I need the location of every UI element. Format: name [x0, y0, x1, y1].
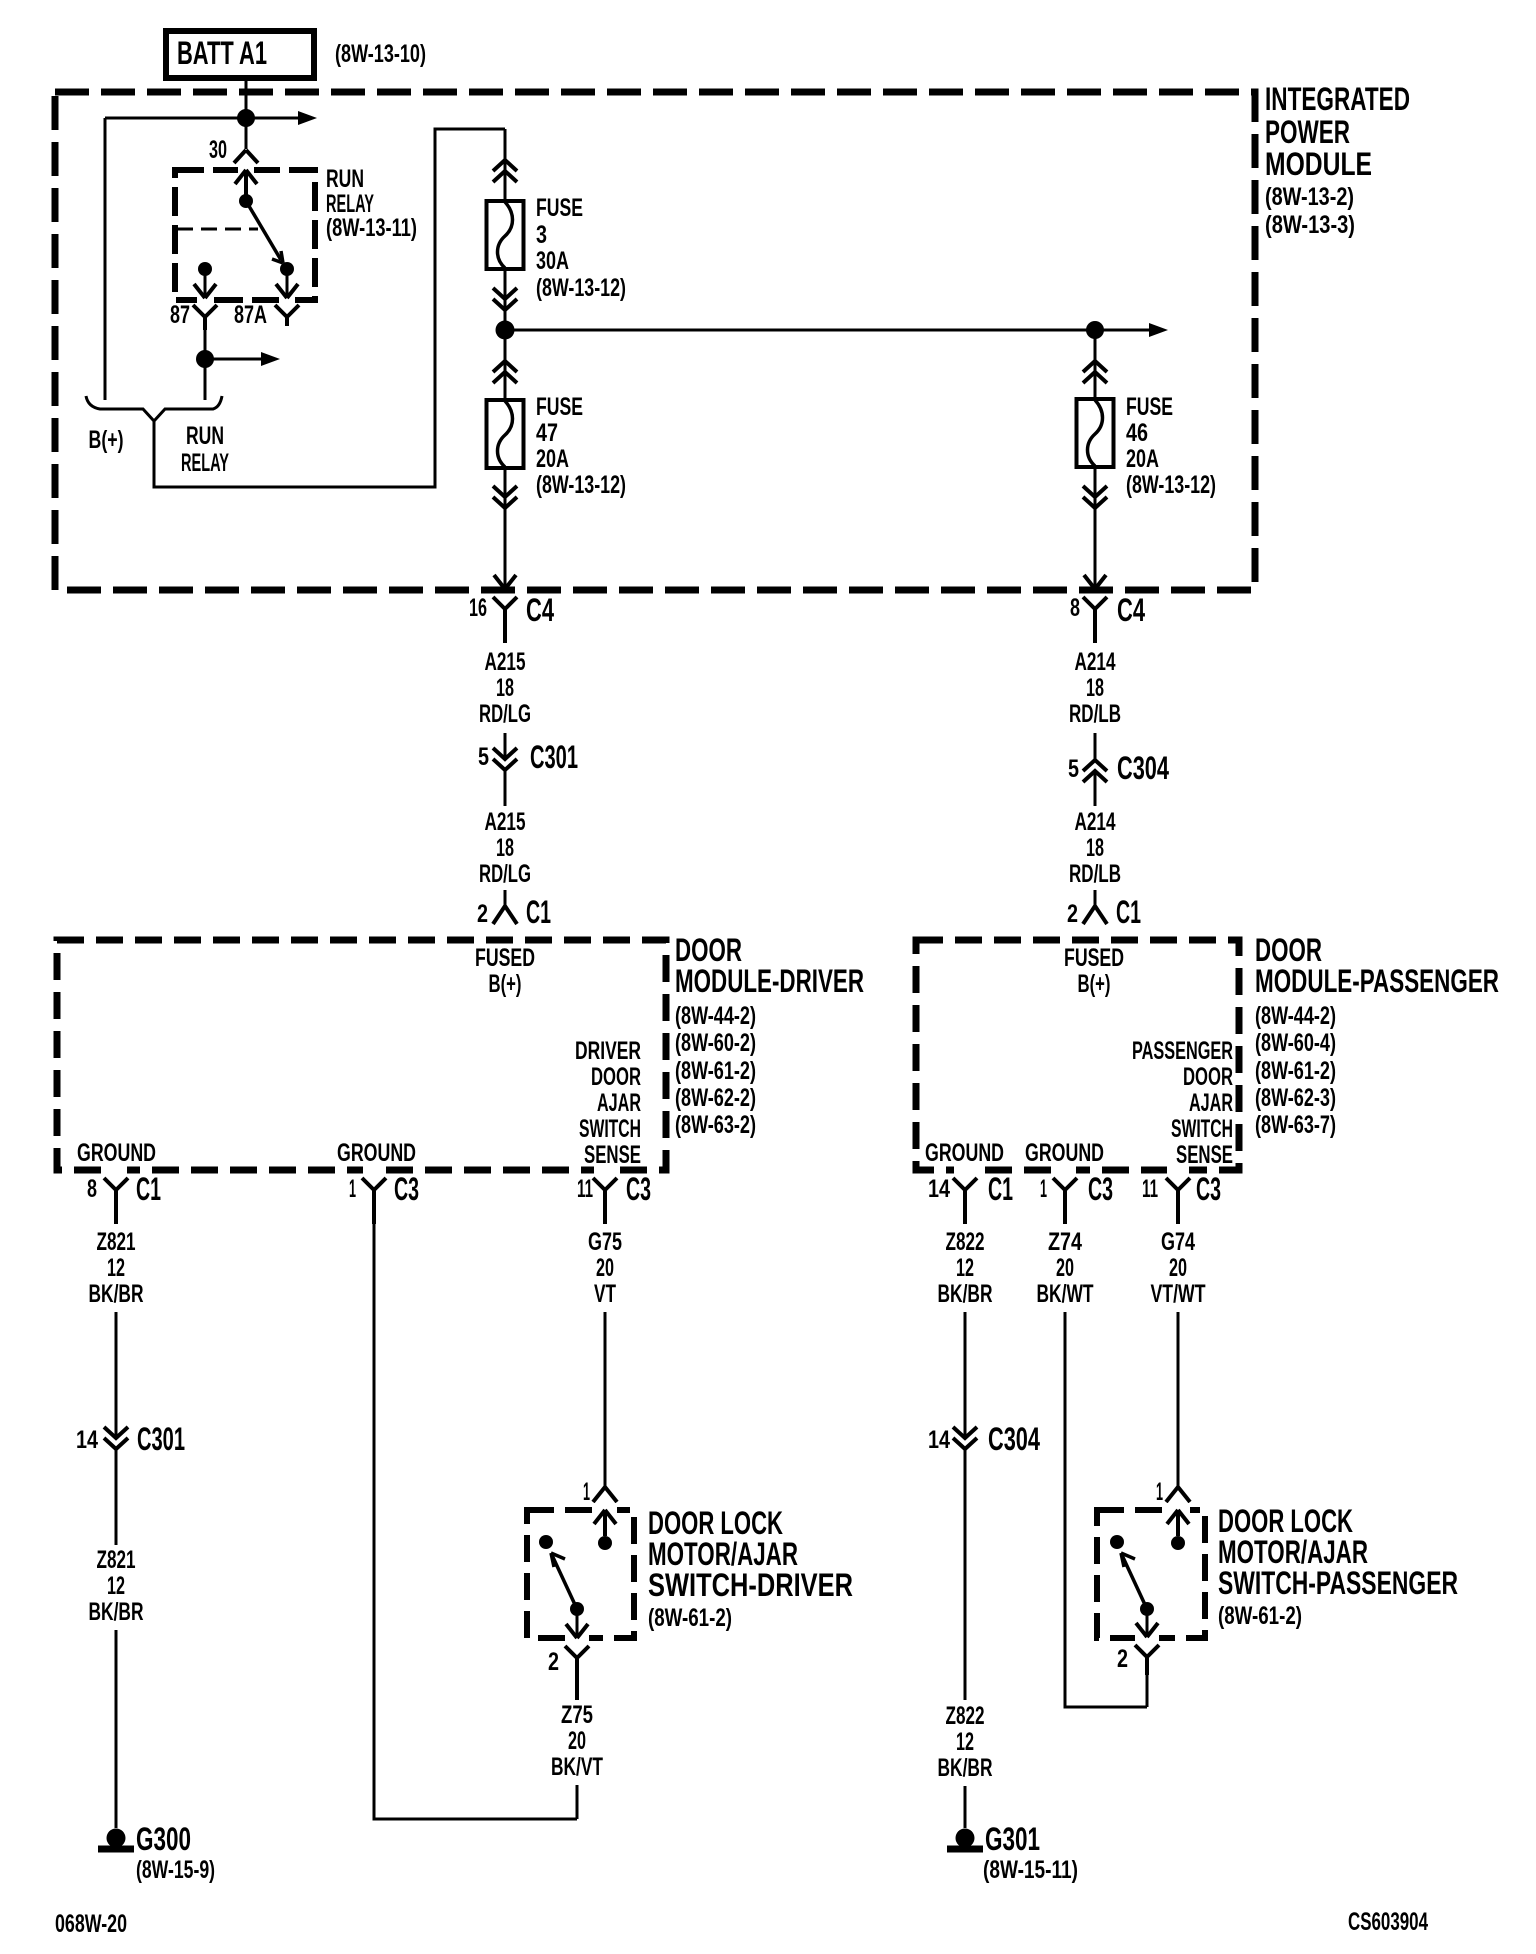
- switch passenger common dot: [1140, 1602, 1154, 1616]
- svg-text:A215: A215: [485, 808, 526, 836]
- svg-text:Z822: Z822: [946, 1702, 985, 1730]
- svg-text:G75: G75: [588, 1228, 622, 1256]
- switch pin 2 female chevron driver: [565, 1646, 589, 1700]
- wire fuse 3 output: [504, 271, 507, 330]
- svg-text:2: 2: [477, 900, 488, 928]
- svg-text:20A: 20A: [1126, 445, 1159, 473]
- fuse F47: [487, 400, 524, 468]
- svg-text:14: 14: [928, 1175, 950, 1203]
- connector chevrons fuse 3 output: [493, 288, 517, 310]
- wire 87 down to brace: [204, 330, 207, 400]
- svg-text:C1: C1: [136, 1171, 161, 1207]
- svg-text:C301: C301: [137, 1421, 185, 1457]
- svg-text:(8W-60-4): (8W-60-4): [1255, 1029, 1336, 1057]
- fuse F46: [1077, 399, 1114, 467]
- battery feed box BATT A1: [166, 31, 314, 78]
- relay coil-side dot: [239, 194, 253, 208]
- arrow 87 branch: [261, 352, 280, 366]
- arrow into C4 pin 8: [1084, 575, 1106, 589]
- svg-text:RUN: RUN: [186, 422, 224, 450]
- wire G74 down: [1177, 1312, 1180, 1487]
- svg-text:2: 2: [548, 1648, 559, 1676]
- wire 87 branch arrow line: [205, 358, 263, 361]
- svg-text:(8W-61-2): (8W-61-2): [1255, 1057, 1336, 1085]
- switch passenger contact dot: [1110, 1535, 1124, 1549]
- junction 87 branch: [196, 350, 214, 368]
- door module driver border: [57, 940, 666, 1170]
- svg-text:BK/BR: BK/BR: [89, 1280, 144, 1308]
- svg-text:C4: C4: [1117, 592, 1145, 628]
- white gap relay pin 30: [238, 164, 254, 176]
- wire Z75 lower: [576, 1785, 579, 1819]
- pin 87A female chevron: [275, 305, 299, 326]
- svg-text:87A: 87A: [234, 301, 267, 329]
- svg-text:20: 20: [1056, 1254, 1074, 1282]
- wire into C301: [504, 733, 507, 759]
- relay contact dot 87A: [280, 262, 294, 276]
- connector C3 pin 11 female driver: [593, 1178, 617, 1224]
- svg-text:FUSE: FUSE: [536, 393, 583, 421]
- ground G300: [107, 1829, 126, 1848]
- svg-text:C301: C301: [530, 739, 578, 775]
- svg-text:BK/BR: BK/BR: [938, 1754, 993, 1782]
- svg-text:3: 3: [536, 221, 547, 249]
- svg-text:CS603904: CS603904: [1348, 1908, 1428, 1936]
- svg-text:2: 2: [1067, 900, 1078, 928]
- svg-text:C304: C304: [988, 1421, 1040, 1457]
- switch passenger pin 1 male arrow: [1167, 1510, 1189, 1536]
- svg-text:G74: G74: [1161, 1228, 1195, 1256]
- pin 30 female chevron: [234, 150, 258, 163]
- svg-text:C1: C1: [526, 894, 551, 930]
- svg-text:(8W-61-2): (8W-61-2): [648, 1604, 732, 1632]
- wire Z822 lower: [964, 1786, 967, 1828]
- svg-text:AJAR: AJAR: [597, 1089, 641, 1117]
- connector C1 pin 2 male passenger: [1083, 906, 1107, 924]
- svg-text:BK/BR: BK/BR: [89, 1598, 144, 1626]
- svg-text:8: 8: [87, 1175, 97, 1203]
- svg-text:SWITCH: SWITCH: [579, 1115, 641, 1143]
- white gap passenger pin C1-14: [954, 1163, 976, 1177]
- svg-text:C304: C304: [1117, 750, 1169, 786]
- svg-text:1: 1: [1040, 1175, 1047, 1203]
- svg-text:1: 1: [1156, 1478, 1163, 1506]
- switch driver common dot: [570, 1602, 584, 1616]
- connector C1 pin 2 male driver: [493, 906, 517, 924]
- wire into C304: [1094, 733, 1097, 760]
- svg-text:C1: C1: [988, 1171, 1013, 1207]
- wire Z822 upper: [964, 1312, 967, 1438]
- svg-text:Z821: Z821: [97, 1546, 136, 1574]
- svg-text:18: 18: [1086, 834, 1104, 862]
- relay pin 30 male arrow: [235, 170, 257, 196]
- wire Z821 mid: [115, 1449, 118, 1545]
- svg-text:12: 12: [956, 1254, 974, 1282]
- switch passenger arm: [1121, 1553, 1147, 1609]
- svg-text:18: 18: [1086, 674, 1104, 702]
- svg-text:30A: 30A: [536, 247, 569, 275]
- wire below C304: [1094, 771, 1097, 806]
- svg-text:DRIVER: DRIVER: [575, 1037, 641, 1065]
- switch passenger pin 2 exit arrow: [1136, 1623, 1158, 1637]
- junction battery splice: [237, 109, 255, 127]
- svg-text:MODULE-PASSENGER: MODULE-PASSENGER: [1255, 963, 1499, 999]
- svg-text:14: 14: [928, 1426, 950, 1454]
- svg-text:POWER: POWER: [1265, 114, 1350, 150]
- wire fuse 46 output: [1094, 469, 1097, 588]
- svg-text:(8W-13-2): (8W-13-2): [1265, 183, 1354, 211]
- relay pin 87 exit wire: [204, 269, 207, 296]
- svg-text:(8W-62-3): (8W-62-3): [1255, 1084, 1336, 1112]
- svg-text:A214: A214: [1075, 648, 1116, 676]
- white gap relay 87r: [197, 294, 213, 306]
- white gap relay pin 87: [197, 294, 213, 306]
- svg-text:RD/LG: RD/LG: [479, 700, 531, 728]
- connector C301 chevrons: [493, 748, 517, 770]
- svg-text:BATT A1: BATT A1: [177, 35, 267, 71]
- connector chevrons fuse 46 output: [1083, 486, 1107, 508]
- svg-text:(8W-13-11): (8W-13-11): [326, 214, 417, 242]
- svg-text:2: 2: [1117, 1645, 1128, 1673]
- svg-text:FUSED: FUSED: [475, 944, 535, 972]
- svg-text:Z821: Z821: [97, 1228, 136, 1256]
- svg-text:11: 11: [577, 1175, 593, 1203]
- switch driver pin 1 male arrow: [594, 1510, 616, 1536]
- wire Z821 lower: [115, 1630, 118, 1828]
- svg-text:RD/LG: RD/LG: [479, 860, 531, 888]
- svg-text:(8W-60-2): (8W-60-2): [675, 1029, 756, 1057]
- svg-text:SENSE: SENSE: [584, 1141, 641, 1169]
- connector chevrons fuse 3 input: [493, 160, 517, 182]
- connector chevrons fuse 46 input: [1083, 361, 1107, 383]
- connector C3 pin 1 female passenger: [1053, 1178, 1077, 1224]
- door lock switch passenger border: [1097, 1510, 1205, 1638]
- svg-text:068W-20: 068W-20: [55, 1910, 127, 1938]
- white gap driver switch pin 1: [593, 1503, 617, 1517]
- white gap passenger switch pin 2: [1135, 1630, 1159, 1644]
- white gap passenger pin C3-11: [1167, 1163, 1189, 1177]
- wire B+ horizontal branch: [105, 117, 299, 120]
- svg-text:FUSE: FUSE: [1126, 393, 1173, 421]
- wire fuse 47 input: [504, 330, 507, 398]
- switch driver arm arrowhead: [551, 1553, 565, 1567]
- svg-text:RUN: RUN: [326, 165, 364, 193]
- switch driver pin 1 dot: [598, 1536, 612, 1550]
- svg-text:DOOR: DOOR: [591, 1063, 641, 1091]
- svg-text:GROUND: GROUND: [1025, 1139, 1104, 1167]
- relay pin 87 exit arrow: [194, 284, 216, 298]
- svg-text:VT: VT: [594, 1280, 616, 1308]
- svg-text:(8W-62-2): (8W-62-2): [675, 1084, 756, 1112]
- svg-text:(8W-61-2): (8W-61-2): [675, 1057, 756, 1085]
- switch passenger pin 1 dot: [1171, 1536, 1185, 1550]
- svg-text:(8W-13-10): (8W-13-10): [335, 40, 426, 68]
- svg-text:87: 87: [170, 301, 190, 329]
- switch passenger arm arrowhead: [1121, 1553, 1135, 1567]
- wire Z822 mid: [964, 1449, 967, 1700]
- relay pin 87A exit arrow: [276, 284, 298, 298]
- switch driver pin 2 exit arrow: [566, 1624, 588, 1638]
- svg-text:12: 12: [107, 1254, 125, 1282]
- connector C4 pin 8 female: [1083, 597, 1107, 643]
- svg-text:PASSENGER: PASSENGER: [1132, 1037, 1233, 1065]
- door module passenger border: [916, 940, 1239, 1170]
- svg-text:20: 20: [1169, 1254, 1187, 1282]
- svg-text:(8W-13-12): (8W-13-12): [536, 471, 626, 499]
- svg-text:(8W-63-7): (8W-63-7): [1255, 1111, 1336, 1139]
- switch pin 1 female chevron driver: [593, 1487, 617, 1502]
- relay contact dot 87: [198, 262, 212, 276]
- svg-text:Z75: Z75: [561, 1701, 593, 1729]
- svg-text:1: 1: [583, 1478, 590, 1506]
- fuse F3: [487, 201, 524, 269]
- svg-text:INTEGRATED: INTEGRATED: [1265, 81, 1410, 117]
- svg-text:RD/LB: RD/LB: [1069, 860, 1121, 888]
- run relay box: [175, 170, 315, 300]
- wire Z821 upper: [115, 1312, 118, 1438]
- svg-text:SENSE: SENSE: [1176, 1141, 1233, 1169]
- svg-text:(8W-44-2): (8W-44-2): [675, 1002, 756, 1030]
- wire into driver C1 pin 2: [504, 890, 507, 906]
- svg-text:DOOR: DOOR: [1183, 1063, 1233, 1091]
- brace bus merge: [86, 396, 222, 421]
- ground G301: [956, 1829, 975, 1848]
- svg-text:FUSE: FUSE: [536, 194, 583, 222]
- svg-text:30: 30: [209, 136, 227, 164]
- svg-text:(8W-44-2): (8W-44-2): [1255, 1002, 1336, 1030]
- svg-text:5: 5: [478, 743, 489, 771]
- svg-text:C3: C3: [394, 1171, 419, 1207]
- svg-text:C1: C1: [1116, 894, 1141, 930]
- relay divider dashed: [177, 228, 258, 231]
- relay switch arm: [246, 201, 281, 260]
- switch driver pin 2 exit wire: [576, 1609, 579, 1636]
- switch driver arm: [551, 1553, 577, 1609]
- arrow B+ branch: [298, 111, 317, 125]
- svg-text:FUSED: FUSED: [1064, 944, 1124, 972]
- svg-text:18: 18: [496, 834, 514, 862]
- svg-text:SWITCH-PASSENGER: SWITCH-PASSENGER: [1218, 1565, 1458, 1601]
- wire B+ left drop: [104, 118, 107, 400]
- connector chevrons fuse 47 output: [493, 486, 517, 508]
- svg-text:BK/WT: BK/WT: [1037, 1280, 1094, 1308]
- wire fused feed bus: [505, 329, 1151, 332]
- relay arm arrowhead: [272, 251, 283, 263]
- svg-text:VT/WT: VT/WT: [1151, 1280, 1206, 1308]
- svg-text:B(+): B(+): [1078, 970, 1111, 998]
- svg-text:A215: A215: [485, 648, 526, 676]
- svg-text:Z822: Z822: [946, 1228, 985, 1256]
- wire G75 down: [604, 1312, 607, 1487]
- connector C3 pin 11 female passenger: [1166, 1178, 1190, 1224]
- white gap relay 30r: [238, 164, 254, 176]
- svg-text:20: 20: [568, 1727, 586, 1755]
- svg-text:Z74: Z74: [1048, 1228, 1082, 1256]
- svg-text:MODULE: MODULE: [1265, 146, 1372, 182]
- svg-text:12: 12: [956, 1728, 974, 1756]
- svg-text:RELAY: RELAY: [181, 449, 229, 477]
- svg-text:(8W-13-3): (8W-13-3): [1265, 211, 1355, 239]
- connector C1 pin 8 female: [104, 1178, 128, 1224]
- wire below C301: [504, 770, 507, 806]
- wire battery feed down: [245, 81, 248, 149]
- svg-text:A214: A214: [1075, 808, 1116, 836]
- svg-text:(8W-15-9): (8W-15-9): [136, 1856, 215, 1884]
- arrow into C4 pin 16: [494, 575, 516, 589]
- white gap relay 87Ar: [279, 294, 295, 306]
- switch driver contact dot: [539, 1535, 553, 1549]
- svg-text:46: 46: [1126, 419, 1148, 447]
- svg-text:B(+): B(+): [89, 426, 124, 454]
- connector C4 pin 16 female: [493, 597, 517, 643]
- connector C3 pin 1 female driver: [362, 1178, 386, 1224]
- svg-text:B(+): B(+): [489, 970, 522, 998]
- svg-text:1: 1: [349, 1175, 356, 1203]
- white gap driver pin C3-11: [594, 1163, 616, 1177]
- connector C304 chevrons: [1083, 760, 1107, 782]
- svg-text:AJAR: AJAR: [1189, 1089, 1233, 1117]
- svg-text:20A: 20A: [536, 445, 569, 473]
- svg-text:(8W-13-12): (8W-13-12): [536, 274, 626, 302]
- junction fused feed splice: [496, 321, 515, 340]
- svg-text:5: 5: [1068, 755, 1079, 783]
- junction fuse 46 tap: [1086, 321, 1104, 339]
- relay pin 87A exit wire: [286, 269, 289, 296]
- svg-text:12: 12: [107, 1572, 125, 1600]
- connector chevrons fuse 47 input: [493, 361, 517, 383]
- svg-text:(8W-63-2): (8W-63-2): [675, 1111, 756, 1139]
- svg-text:16: 16: [469, 594, 487, 622]
- white gap driver pin C1-8: [105, 1163, 127, 1177]
- wire into passenger C1 pin 2: [1094, 890, 1097, 906]
- svg-text:47: 47: [536, 419, 558, 447]
- white gap driver switch pin 2: [565, 1631, 589, 1645]
- svg-text:18: 18: [496, 674, 514, 702]
- wire fuse 46 input: [1094, 330, 1097, 397]
- svg-text:GROUND: GROUND: [925, 1139, 1004, 1167]
- connector C301 lower chevrons: [104, 1427, 128, 1449]
- svg-text:C3: C3: [1196, 1171, 1221, 1207]
- wire fuse 3 input: [504, 129, 507, 199]
- svg-text:SWITCH-DRIVER: SWITCH-DRIVER: [648, 1567, 853, 1603]
- svg-text:BK/BR: BK/BR: [938, 1280, 993, 1308]
- white gap driver pin C3-1: [363, 1163, 385, 1177]
- switch passenger pin 2 exit wire: [1146, 1609, 1149, 1635]
- svg-text:RD/LB: RD/LB: [1069, 700, 1121, 728]
- svg-text:GROUND: GROUND: [77, 1139, 156, 1167]
- svg-text:BK/VT: BK/VT: [551, 1753, 603, 1781]
- svg-text:(8W-15-11): (8W-15-11): [983, 1856, 1078, 1884]
- svg-text:GROUND: GROUND: [337, 1139, 416, 1167]
- svg-text:C3: C3: [1088, 1171, 1113, 1207]
- svg-text:SWITCH: SWITCH: [1171, 1115, 1233, 1143]
- switch pin 2 female chevron passenger: [1135, 1645, 1159, 1675]
- wire switch passenger to ground wire: [1146, 1675, 1149, 1707]
- white gap relay pin 87A: [279, 294, 295, 306]
- svg-text:20: 20: [596, 1254, 614, 1282]
- svg-text:(8W-61-2): (8W-61-2): [1218, 1602, 1302, 1630]
- wire brace to fuse 3 feed: [154, 129, 505, 487]
- wire driver module ground: [374, 1224, 577, 1819]
- connector C1 pin 14 female: [953, 1178, 977, 1224]
- svg-text:MODULE-DRIVER: MODULE-DRIVER: [675, 963, 864, 999]
- wire passenger module ground: [1065, 1312, 1147, 1707]
- integrated power module border: [55, 92, 1255, 590]
- svg-text:14: 14: [76, 1426, 98, 1454]
- switch pin 1 female chevron passenger: [1166, 1487, 1190, 1502]
- svg-text:(8W-13-12): (8W-13-12): [1126, 471, 1216, 499]
- white gap passenger pin C3-1: [1054, 1163, 1076, 1177]
- pin 87 female chevron: [193, 305, 217, 330]
- door lock switch driver border: [527, 1510, 634, 1638]
- svg-text:C4: C4: [526, 592, 554, 628]
- svg-text:G300: G300: [136, 1821, 191, 1857]
- connector C304 lower chevrons: [953, 1427, 977, 1449]
- svg-text:G301: G301: [985, 1821, 1040, 1857]
- white gap passenger switch pin 1: [1166, 1503, 1190, 1517]
- svg-text:C3: C3: [626, 1171, 651, 1207]
- svg-text:8: 8: [1070, 594, 1080, 622]
- wire fuse 47 output: [504, 470, 507, 588]
- arrow fused feed: [1149, 323, 1168, 337]
- svg-text:11: 11: [1142, 1175, 1158, 1203]
